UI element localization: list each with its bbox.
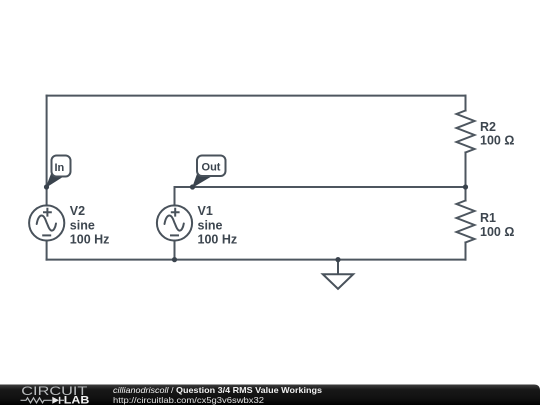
footer bar	[0, 385, 540, 405]
junction dot Out node	[190, 184, 195, 189]
wire bottom (ground net)	[47, 259, 466, 261]
resistor R1	[457, 201, 475, 243]
ground	[323, 260, 353, 289]
wire right top lead of R2	[465, 96, 467, 111]
R2 labels	[480, 120, 514, 148]
V2 labels	[70, 204, 110, 246]
junction dot V1 bottom	[172, 257, 177, 262]
svg-text:In: In	[55, 162, 65, 174]
wire V1 bottom lead	[174, 241, 176, 260]
voltage source V2	[29, 205, 64, 240]
svg-text:100 Hz: 100 Hz	[70, 232, 110, 246]
svg-text:sine: sine	[70, 218, 95, 232]
svg-text:http://circuitlab.com/cx5g3v6s: http://circuitlab.com/cx5g3v6swbx32	[113, 395, 264, 405]
logo resistor squiggle	[21, 398, 52, 403]
junction dot ground	[335, 257, 340, 262]
svg-text:V1: V1	[198, 204, 213, 218]
svg-text:cillianodriscoll / Question 3/: cillianodriscoll / Question 3/4 RMS Valu…	[113, 385, 322, 395]
node Out flag	[192, 156, 226, 189]
junction dot In node	[44, 184, 49, 189]
svg-text:100 Ω: 100 Ω	[480, 225, 514, 239]
svg-text:100 Hz: 100 Hz	[198, 232, 238, 246]
junction dot right (R2/R1/Out)	[463, 184, 468, 189]
voltage source V1	[157, 205, 192, 240]
svg-text:100 Ω: 100 Ω	[480, 133, 514, 147]
wire middle (Out net)	[175, 186, 466, 188]
wire V1 top lead	[174, 187, 176, 206]
svg-text:LAB: LAB	[64, 394, 90, 405]
logo diode	[52, 397, 59, 404]
wire V2 bottom lead	[46, 241, 48, 260]
node In flag	[46, 156, 71, 189]
wire between R2 and R1	[465, 153, 467, 201]
svg-text:Out: Out	[202, 162, 221, 174]
V1 labels	[198, 204, 238, 246]
svg-text:R2: R2	[480, 120, 496, 134]
svg-text:R1: R1	[480, 211, 496, 225]
wire R1 bottom lead	[465, 243, 467, 260]
wire top	[47, 95, 466, 97]
wire left (In net)	[46, 96, 48, 206]
resistor R2	[457, 111, 475, 153]
svg-text:V2: V2	[70, 204, 85, 218]
R1 labels	[480, 211, 514, 239]
svg-text:sine: sine	[198, 218, 223, 232]
